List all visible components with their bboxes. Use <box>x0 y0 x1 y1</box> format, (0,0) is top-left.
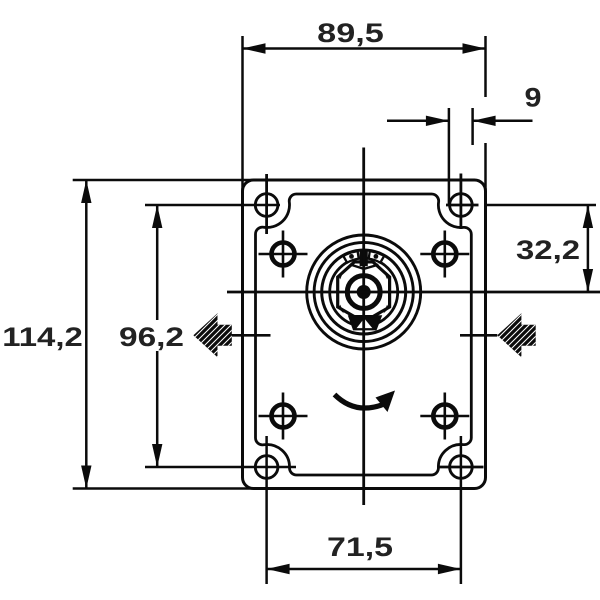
shaft hex body <box>338 262 390 317</box>
dim 89,5 extension left <box>241 36 244 193</box>
spline tooth dot left <box>349 254 354 259</box>
dim 96,2 line upper segment <box>156 205 159 320</box>
dim 114,2 extension top <box>73 179 257 182</box>
svg-text:96,2: 96,2 <box>119 322 184 352</box>
right port line <box>460 334 497 337</box>
rotation direction arrow <box>335 395 384 409</box>
shaft seal ring <box>347 276 380 309</box>
spline tooth window left <box>343 251 358 263</box>
svg-text:89,5: 89,5 <box>317 18 384 48</box>
svg-text:32,2: 32,2 <box>516 235 580 265</box>
dim 89,5 line <box>243 47 486 50</box>
centerline horizontal top-right hole <box>446 204 479 207</box>
shaft vertical centerline <box>362 148 365 506</box>
flange inner outline with corner reliefs <box>255 194 471 475</box>
shaft horizontal centerline and 32,2 extension <box>227 291 600 294</box>
spline chevron <box>351 265 379 269</box>
mounting hole bottom-right <box>450 456 473 479</box>
centerline vertical top-right hole <box>459 174 462 230</box>
left port line <box>213 334 271 337</box>
hex chamfer mark bottom-right <box>384 305 390 314</box>
dim 32,2 extension top <box>484 204 596 207</box>
dim 9 extension left <box>448 108 451 206</box>
body outer outline <box>243 180 486 489</box>
dim 71,5 extension right <box>460 436 463 584</box>
centerline horizontal bottom-right hole <box>437 466 484 469</box>
shaft circle r34 <box>330 258 398 326</box>
dim 71,5 line <box>267 568 461 571</box>
dim 9 line right part <box>473 120 533 123</box>
bolt hole upper-right <box>433 243 456 266</box>
dim 71,5 extension left <box>265 436 268 584</box>
mounting hole top-left <box>255 194 278 217</box>
shaft circle r42 <box>322 250 406 334</box>
shaft center dot <box>357 285 371 299</box>
dim 114,2 extension bottom <box>73 487 257 490</box>
dim 96,2 line lower segment <box>156 351 159 467</box>
mounting hole bottom-left <box>255 456 278 479</box>
dim 114,2 line <box>85 180 88 489</box>
hex chamfer mark top-right <box>384 271 390 280</box>
dim 32,2 line <box>587 205 590 292</box>
dim 89,5 extension right lower <box>484 143 487 193</box>
shaft boss outer circle <box>307 235 421 349</box>
svg-text:114,2: 114,2 <box>2 322 83 352</box>
hex chamfer mark top-left <box>338 271 344 280</box>
dim 96,2 extension bottom <box>145 466 296 469</box>
dim 96,2 extension top <box>145 204 280 207</box>
hex chamfer mark bottom-left <box>338 305 344 314</box>
mounting hole top-right <box>450 194 473 217</box>
svg-text:9: 9 <box>525 83 542 113</box>
shaft pilot circle <box>314 242 413 341</box>
spline tooth window right <box>369 251 384 263</box>
dim 9 line left part <box>387 120 449 123</box>
spline tooth dot right <box>374 254 379 259</box>
bolt hole upper-left <box>272 243 295 266</box>
centerline vertical top-left hole <box>265 174 268 234</box>
keyway trapezoid <box>349 316 381 329</box>
left port arrow <box>138 300 274 370</box>
right port arrow <box>442 300 578 370</box>
bolt hole lower-right <box>433 405 456 428</box>
dim 89,5 extension right upper <box>484 36 487 97</box>
bolt hole lower-left <box>272 405 295 428</box>
keyway white notch <box>357 318 373 328</box>
dim 9 extension right <box>471 108 474 145</box>
svg-text:71,5: 71,5 <box>327 532 393 562</box>
key slot block <box>360 251 368 267</box>
